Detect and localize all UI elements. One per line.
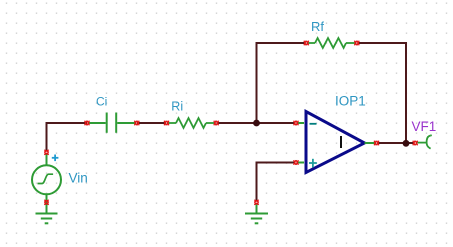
pin marker ground G2	[254, 200, 259, 205]
svg-text:Vin: Vin	[69, 171, 88, 186]
wire noninverting input to ground	[257, 163, 295, 201]
wire output	[379, 142, 414, 144]
svg-text:IOP1: IOP1	[335, 94, 366, 109]
resistor Rf	[308, 38, 355, 48]
op-amp plus sign	[309, 159, 317, 168]
pin marker Rf right	[354, 41, 359, 46]
wire input corner (Vin top to Ci)	[47, 123, 88, 151]
pin marker Vin top	[44, 150, 49, 155]
resistor Ri	[168, 118, 215, 128]
op-amp minus sign	[310, 123, 317, 125]
ground G1 under Vin	[36, 214, 58, 224]
svg-text:Rf: Rf	[311, 19, 324, 34]
wire Ci to Ri	[137, 122, 166, 124]
pin marker Ci right	[134, 121, 139, 126]
pin marker op-amp output	[374, 141, 379, 146]
pin marker Rf left	[304, 41, 309, 46]
ground G2 under op-amp plus input	[245, 205, 268, 224]
capacitor Ci	[89, 113, 136, 133]
node junction output	[403, 140, 410, 147]
svg-text:Ri: Ri	[171, 99, 183, 113]
pin marker Ri right	[214, 121, 219, 126]
svg-text:VF1: VF1	[412, 119, 437, 134]
output voltage pin VF1	[418, 135, 432, 149]
wire feedback top right and right vertical	[358, 43, 406, 143]
wire Ri to op-amp inverting input	[217, 122, 295, 124]
op-amp IOP1 triangle	[306, 112, 365, 173]
op-amp input pins	[298, 123, 376, 163]
pin marker op-amp noninverting input	[294, 160, 299, 165]
node junction input	[253, 120, 260, 127]
wire feedback left vertical and top	[257, 43, 306, 122]
Vin plus polarity	[52, 155, 59, 162]
svg-text:Ci: Ci	[96, 95, 107, 109]
pin marker Vin bottom	[44, 200, 49, 205]
pin marker op-amp inverting input	[294, 121, 299, 126]
pin marker output pin VF1	[413, 141, 418, 146]
pin marker Ri left	[164, 121, 169, 126]
op-amp ideal mark I	[340, 136, 342, 148]
pin marker Ci left	[85, 121, 90, 126]
voltage source Vin	[32, 154, 61, 213]
Vin waveform symbol	[38, 174, 54, 183]
